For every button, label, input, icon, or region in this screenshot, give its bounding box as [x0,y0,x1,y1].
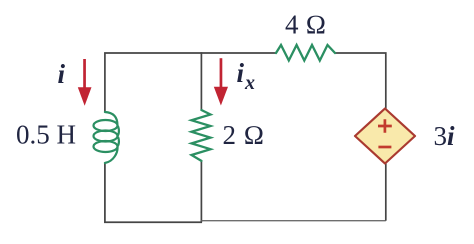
inductor L1 0.5H coil [94,112,119,163]
wire middle branch bottom lead [200,161,202,222]
resistor 2-ohm zigzag [192,110,211,161]
svg-text:4Ω: 4Ω [285,10,326,40]
dependent voltage source U1 diamond 3i [355,109,415,164]
plus sign inside source [378,119,392,133]
current arrow i_x (red, down) [214,58,228,105]
svg-text:3i: 3i [434,121,456,151]
wire top-left from node at top of 2-ohm branch to top-left corner and down to inductor [105,53,276,112]
wire top-right from resistor to top-right corner down to source top [335,53,386,109]
minus sign inside source [378,146,391,149]
svg-text:ix: ix [237,58,256,94]
resistor 4-ohm zigzag [276,45,335,61]
wire bottom-right segment [201,220,385,222]
wire source bottom lead [385,164,387,221]
wire middle branch top lead [200,52,202,110]
svg-text:i: i [58,59,66,89]
current arrow i (red, down) [78,59,92,106]
svg-text:2Ω: 2Ω [223,120,265,150]
wire left branch bottom lead and bottom-left segment [105,163,202,222]
svg-text:0.5 H: 0.5 H [16,120,76,150]
